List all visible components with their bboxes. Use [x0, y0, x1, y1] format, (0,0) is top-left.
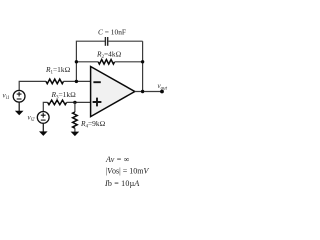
wire: [18, 102, 20, 111]
wire: [43, 102, 47, 111]
ground: [39, 131, 48, 136]
ground: [71, 132, 80, 137]
wire: [115, 61, 143, 63]
wire: [142, 41, 144, 91]
capacitor C: [105, 37, 107, 46]
wire: [76, 61, 98, 63]
wire: [42, 123, 44, 132]
node vout: [160, 90, 164, 94]
wire: [74, 128, 76, 132]
resistor R3: [48, 100, 67, 105]
junction: [75, 60, 78, 63]
svg-text:R3=1kΩ: R3=1kΩ: [51, 90, 76, 101]
resistor R4: [73, 112, 78, 128]
voltage source vi2: [37, 112, 49, 124]
ground: [15, 111, 24, 116]
resistor R2: [98, 60, 114, 65]
wire: [19, 81, 46, 90]
junction: [73, 101, 76, 104]
svg-text:R4=9kΩ: R4=9kΩ: [80, 119, 105, 130]
wire: [74, 102, 76, 112]
junction: [75, 80, 78, 83]
op-amp U1: [91, 67, 135, 117]
svg-text:|Vos| = 10mV: |Vos| = 10mV: [106, 166, 150, 175]
voltage source vi1: [13, 90, 25, 102]
svg-text:Ib = 10µA: Ib = 10µA: [104, 179, 140, 188]
svg-text:R1=1kΩ: R1=1kΩ: [45, 65, 70, 76]
wire: [67, 101, 91, 103]
wire: [108, 40, 142, 42]
svg-text:R2=4kΩ: R2=4kΩ: [96, 50, 121, 61]
wire: [63, 80, 91, 82]
wire: [76, 41, 105, 81]
svg-text:Av = ∞: Av = ∞: [105, 155, 130, 164]
junction: [141, 60, 144, 63]
svg-text:C = 10nF: C = 10nF: [98, 28, 126, 37]
junction: [141, 90, 144, 93]
wire: [135, 91, 162, 93]
resistor R1: [46, 79, 64, 84]
